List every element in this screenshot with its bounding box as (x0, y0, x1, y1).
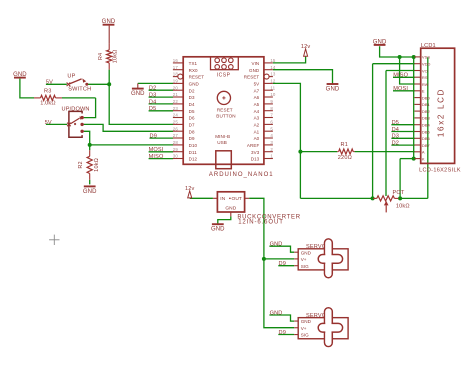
svg-text:D8: D8 (189, 129, 195, 134)
svg-text:D7: D7 (189, 123, 195, 128)
svg-text:13: 13 (270, 72, 276, 77)
svg-text:A2: A2 (254, 123, 260, 128)
svg-text:3V3: 3V3 (251, 150, 260, 155)
svg-text:8: 8 (270, 106, 273, 111)
svg-text:10kΩ: 10kΩ (396, 203, 410, 209)
svg-text:D6: D6 (189, 116, 195, 121)
svg-text:GND: GND (249, 68, 260, 73)
svg-text:20: 20 (173, 85, 179, 90)
svg-text:RESET: RESET (217, 108, 233, 113)
svg-text:SIG: SIG (301, 264, 309, 269)
svg-text:D9: D9 (279, 330, 286, 336)
svg-text:POT: POT (393, 190, 405, 196)
svg-text:D2: D2 (189, 88, 195, 93)
svg-text:VSS: VSS (422, 55, 430, 60)
svg-text:A7: A7 (254, 88, 260, 93)
svg-text:D3: D3 (392, 134, 399, 140)
svg-text:RESET: RESET (189, 75, 205, 80)
svg-text:A5: A5 (254, 102, 260, 107)
svg-text:5V: 5V (254, 82, 260, 87)
svg-text:DB5: DB5 (422, 129, 431, 134)
svg-text:28: 28 (173, 140, 179, 145)
svg-text:D3: D3 (149, 93, 156, 99)
svg-text:VDD: VDD (422, 62, 431, 67)
svg-text:D4: D4 (189, 102, 195, 107)
svg-text:19: 19 (173, 79, 179, 84)
svg-text:GND: GND (373, 39, 387, 45)
svg-text:K: K (422, 156, 425, 161)
svg-text:LCD-16X2SILK: LCD-16X2SILK (419, 168, 461, 174)
svg-text:RS: RS (422, 75, 428, 80)
svg-text:DB2: DB2 (422, 109, 431, 114)
svg-text:15: 15 (270, 58, 276, 63)
svg-text:16x2 LCD: 16x2 LCD (436, 88, 445, 137)
svg-text:4: 4 (270, 133, 273, 138)
svg-text:9: 9 (270, 99, 273, 104)
svg-text:TX1: TX1 (189, 61, 198, 66)
svg-text:D10: D10 (189, 143, 198, 148)
svg-text:D5: D5 (189, 109, 195, 114)
svg-text:30: 30 (173, 154, 179, 159)
svg-text:D12: D12 (189, 157, 198, 162)
svg-text:GND: GND (13, 72, 27, 78)
svg-text:D3: D3 (189, 95, 195, 100)
svg-text:UP: UP (67, 73, 75, 79)
svg-text:GND: GND (189, 82, 200, 87)
svg-text:DB0: DB0 (422, 95, 431, 100)
svg-text:5: 5 (270, 126, 273, 131)
svg-text:D2: D2 (149, 86, 156, 92)
svg-text:V+: V+ (301, 257, 307, 262)
svg-text:DB3: DB3 (422, 116, 431, 121)
svg-text:USB: USB (217, 140, 227, 145)
svg-text:23: 23 (173, 106, 179, 111)
svg-text:AREF: AREF (247, 143, 260, 148)
svg-text:DB1: DB1 (422, 102, 431, 107)
svg-text:A6: A6 (254, 95, 260, 100)
svg-text:10kΩ: 10kΩ (112, 49, 118, 63)
svg-text:A0: A0 (254, 136, 260, 141)
svg-text:OUT: OUT (232, 196, 242, 202)
svg-text:A: A (422, 150, 425, 155)
svg-text:DB4: DB4 (422, 123, 431, 128)
svg-text:7: 7 (270, 113, 273, 118)
svg-text:D13: D13 (251, 157, 260, 162)
svg-text:GND: GND (83, 189, 97, 195)
svg-text:D2: D2 (392, 141, 399, 147)
svg-text:D9: D9 (189, 136, 195, 141)
svg-text:10: 10 (270, 92, 276, 97)
svg-text:10kΩ: 10kΩ (94, 158, 100, 172)
svg-text:D5: D5 (392, 120, 399, 126)
svg-text:GND: GND (301, 250, 312, 255)
svg-text:MINI-B: MINI-B (215, 134, 230, 139)
svg-text:V+: V+ (301, 326, 307, 331)
svg-text:26: 26 (173, 126, 179, 131)
svg-text:220Ω: 220Ω (338, 155, 352, 161)
svg-text:VO: VO (422, 68, 428, 73)
svg-text:GND: GND (326, 86, 340, 92)
svg-text:GND: GND (131, 91, 145, 97)
svg-text:6: 6 (270, 120, 273, 125)
svg-text:SWITCH: SWITCH (68, 86, 91, 92)
svg-text:R2: R2 (78, 161, 84, 168)
svg-text:MOSI: MOSI (149, 147, 164, 153)
svg-text:D4: D4 (392, 127, 399, 133)
svg-text:12IN-6.6OUT: 12IN-6.6OUT (238, 220, 284, 226)
svg-text:GND: GND (270, 242, 283, 248)
svg-text:BUTTON: BUTTON (216, 114, 235, 119)
svg-text:IN: IN (220, 196, 225, 202)
svg-text:12v: 12v (301, 44, 310, 50)
svg-text:R3: R3 (44, 89, 51, 95)
svg-text:5V: 5V (46, 79, 53, 85)
svg-text:E: E (422, 89, 425, 94)
svg-text:D4: D4 (149, 99, 156, 105)
svg-text:GND: GND (270, 310, 283, 316)
svg-text:25: 25 (173, 120, 179, 125)
svg-text:GND: GND (211, 227, 225, 233)
svg-text:SIG: SIG (301, 333, 309, 338)
svg-text:D9: D9 (279, 261, 286, 267)
svg-text:MOSI: MOSI (393, 86, 408, 92)
svg-text:29: 29 (173, 147, 179, 152)
svg-text:LCD1: LCD1 (421, 43, 436, 49)
svg-text:GND: GND (225, 205, 236, 211)
svg-text:5V: 5V (45, 120, 52, 126)
svg-text:GND: GND (301, 319, 312, 324)
svg-text:R4: R4 (98, 53, 104, 60)
svg-text:17: 17 (173, 65, 179, 70)
svg-text:ARDUINO_NANO1: ARDUINO_NANO1 (209, 172, 274, 178)
svg-text:27: 27 (173, 133, 179, 138)
svg-text:DB6: DB6 (422, 136, 431, 141)
svg-text:GND: GND (102, 19, 116, 25)
svg-text:MISO: MISO (393, 73, 408, 79)
svg-text:D9: D9 (150, 134, 157, 140)
svg-text:21: 21 (173, 92, 179, 97)
svg-text:14: 14 (270, 65, 276, 70)
svg-text:2: 2 (270, 147, 273, 152)
svg-text:12v: 12v (185, 186, 194, 192)
svg-text:1: 1 (270, 154, 273, 159)
svg-text:VIN: VIN (251, 61, 259, 66)
svg-text:24: 24 (173, 113, 179, 118)
svg-text:RESET: RESET (244, 75, 260, 80)
svg-text:16: 16 (173, 58, 179, 63)
svg-text:MISO: MISO (149, 154, 164, 160)
svg-text:11: 11 (270, 85, 275, 90)
svg-text:R1: R1 (341, 142, 348, 148)
svg-text:3: 3 (270, 140, 273, 145)
svg-text:RX0: RX0 (189, 68, 198, 73)
svg-text:ICSP: ICSP (217, 72, 231, 78)
svg-text:A4: A4 (254, 109, 260, 114)
svg-text:1.0kΩ: 1.0kΩ (40, 101, 56, 107)
svg-text:12: 12 (270, 79, 276, 84)
svg-text:D5: D5 (149, 106, 156, 112)
svg-text:D11: D11 (189, 150, 198, 155)
svg-text:A3: A3 (254, 116, 260, 121)
svg-text:RW: RW (422, 82, 429, 87)
svg-text:A1: A1 (254, 129, 260, 134)
svg-text:22: 22 (173, 99, 179, 104)
svg-text:DB7: DB7 (422, 143, 431, 148)
